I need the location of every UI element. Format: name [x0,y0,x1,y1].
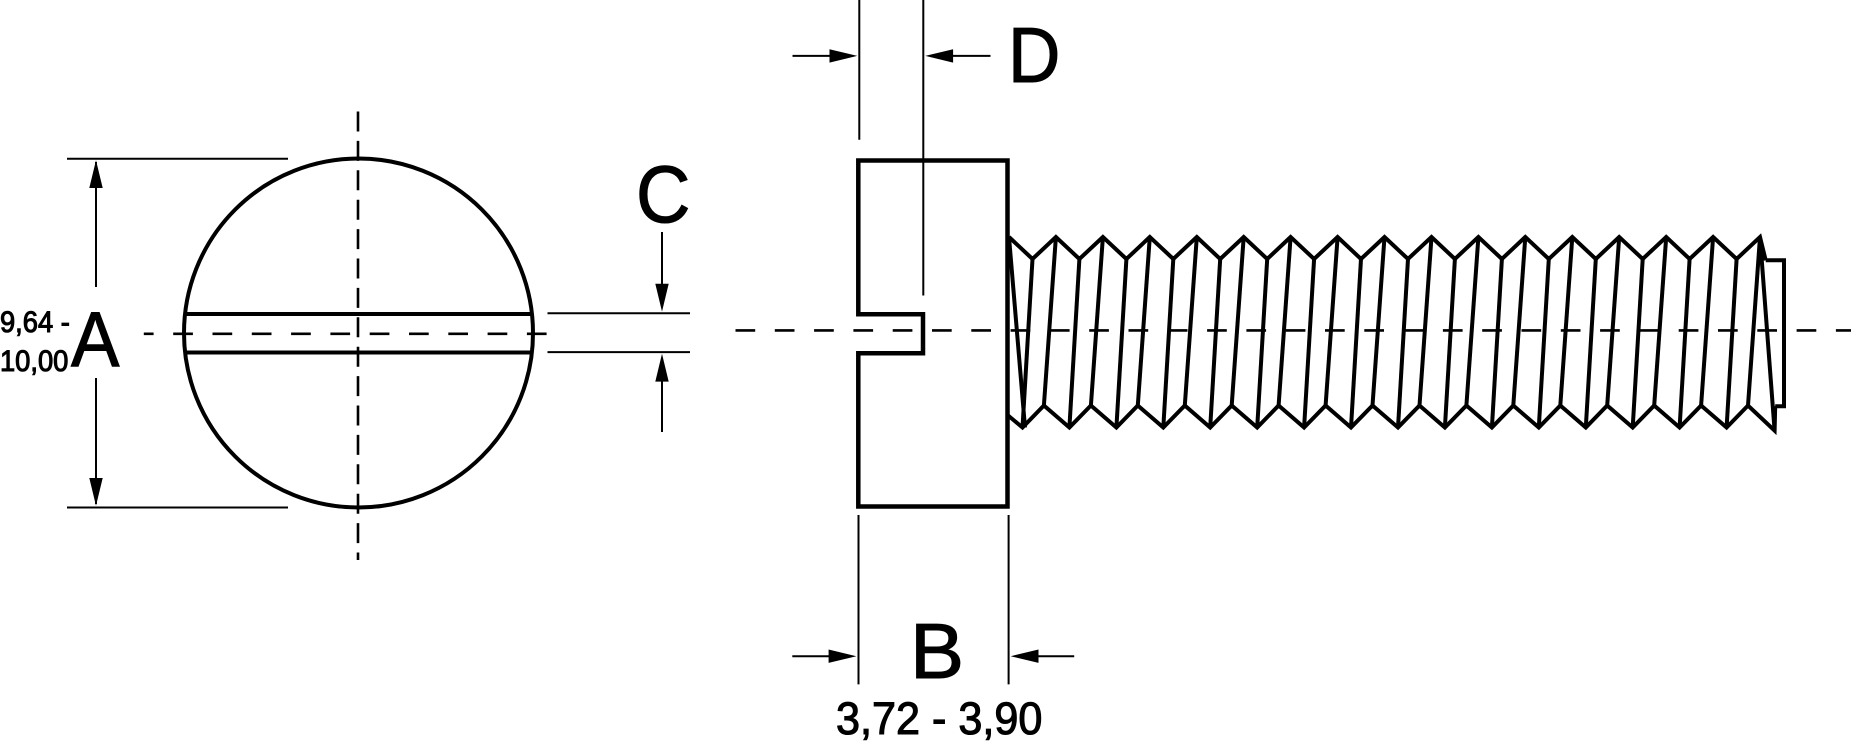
dim A top extension line [67,158,288,160]
thread bottom crest zigzag outline [1008,406,1776,431]
thread flank lines [1023,237,1761,428]
dim C top extension line [548,312,691,314]
dim A line upper segment [95,162,97,287]
dim D right arrow shaft [951,55,991,57]
dim B right extension line [1008,515,1010,684]
dim B right arrowhead left [1011,650,1039,663]
horizontal centerline side view [736,329,1851,332]
dim C upper arrowhead down [655,284,668,312]
vertical centerline front view [357,112,360,561]
dim B left extension line [858,515,860,684]
dim B right arrow shaft [1037,655,1075,657]
label C slot width [636,155,690,236]
dim D right arrowhead left [925,49,953,62]
thread top crest zigzag outline [1009,237,1766,260]
dim A arrowhead down [89,478,102,506]
dim D left arrow shaft [793,55,833,57]
label 3,72 - 3,90 range [836,696,1042,741]
label 9,64 - 10,00 range [0,303,70,381]
dim C upper arrow shaft [661,232,663,286]
dim C lower arrowhead up [655,354,668,382]
dim D right extension line (slot depth line) [922,0,924,296]
screw head side view outline with slot notch [858,161,1007,507]
thread runout flank at head [1009,237,1025,428]
horizontal centerline left view [144,332,560,335]
dim D left extension line [858,0,860,140]
head circle front view [184,159,533,508]
slot top chord [186,312,532,316]
dim D left arrowhead right [830,49,858,62]
thread tip end rectangle [1766,260,1784,406]
label A head diameter [71,300,119,378]
thread runout flank at tip [1760,237,1775,431]
dim C bottom extension line [548,351,691,353]
dim A line lower segment [95,378,97,504]
dim B left arrowhead right [829,650,857,663]
dim B left arrow shaft [792,655,831,657]
dim A arrowhead up [89,160,102,188]
dim A bottom extension line [67,507,288,509]
slot bottom chord [186,351,532,355]
dim C lower arrow shaft [661,380,663,432]
label B head height [910,612,964,690]
label D slot depth [1008,16,1060,94]
